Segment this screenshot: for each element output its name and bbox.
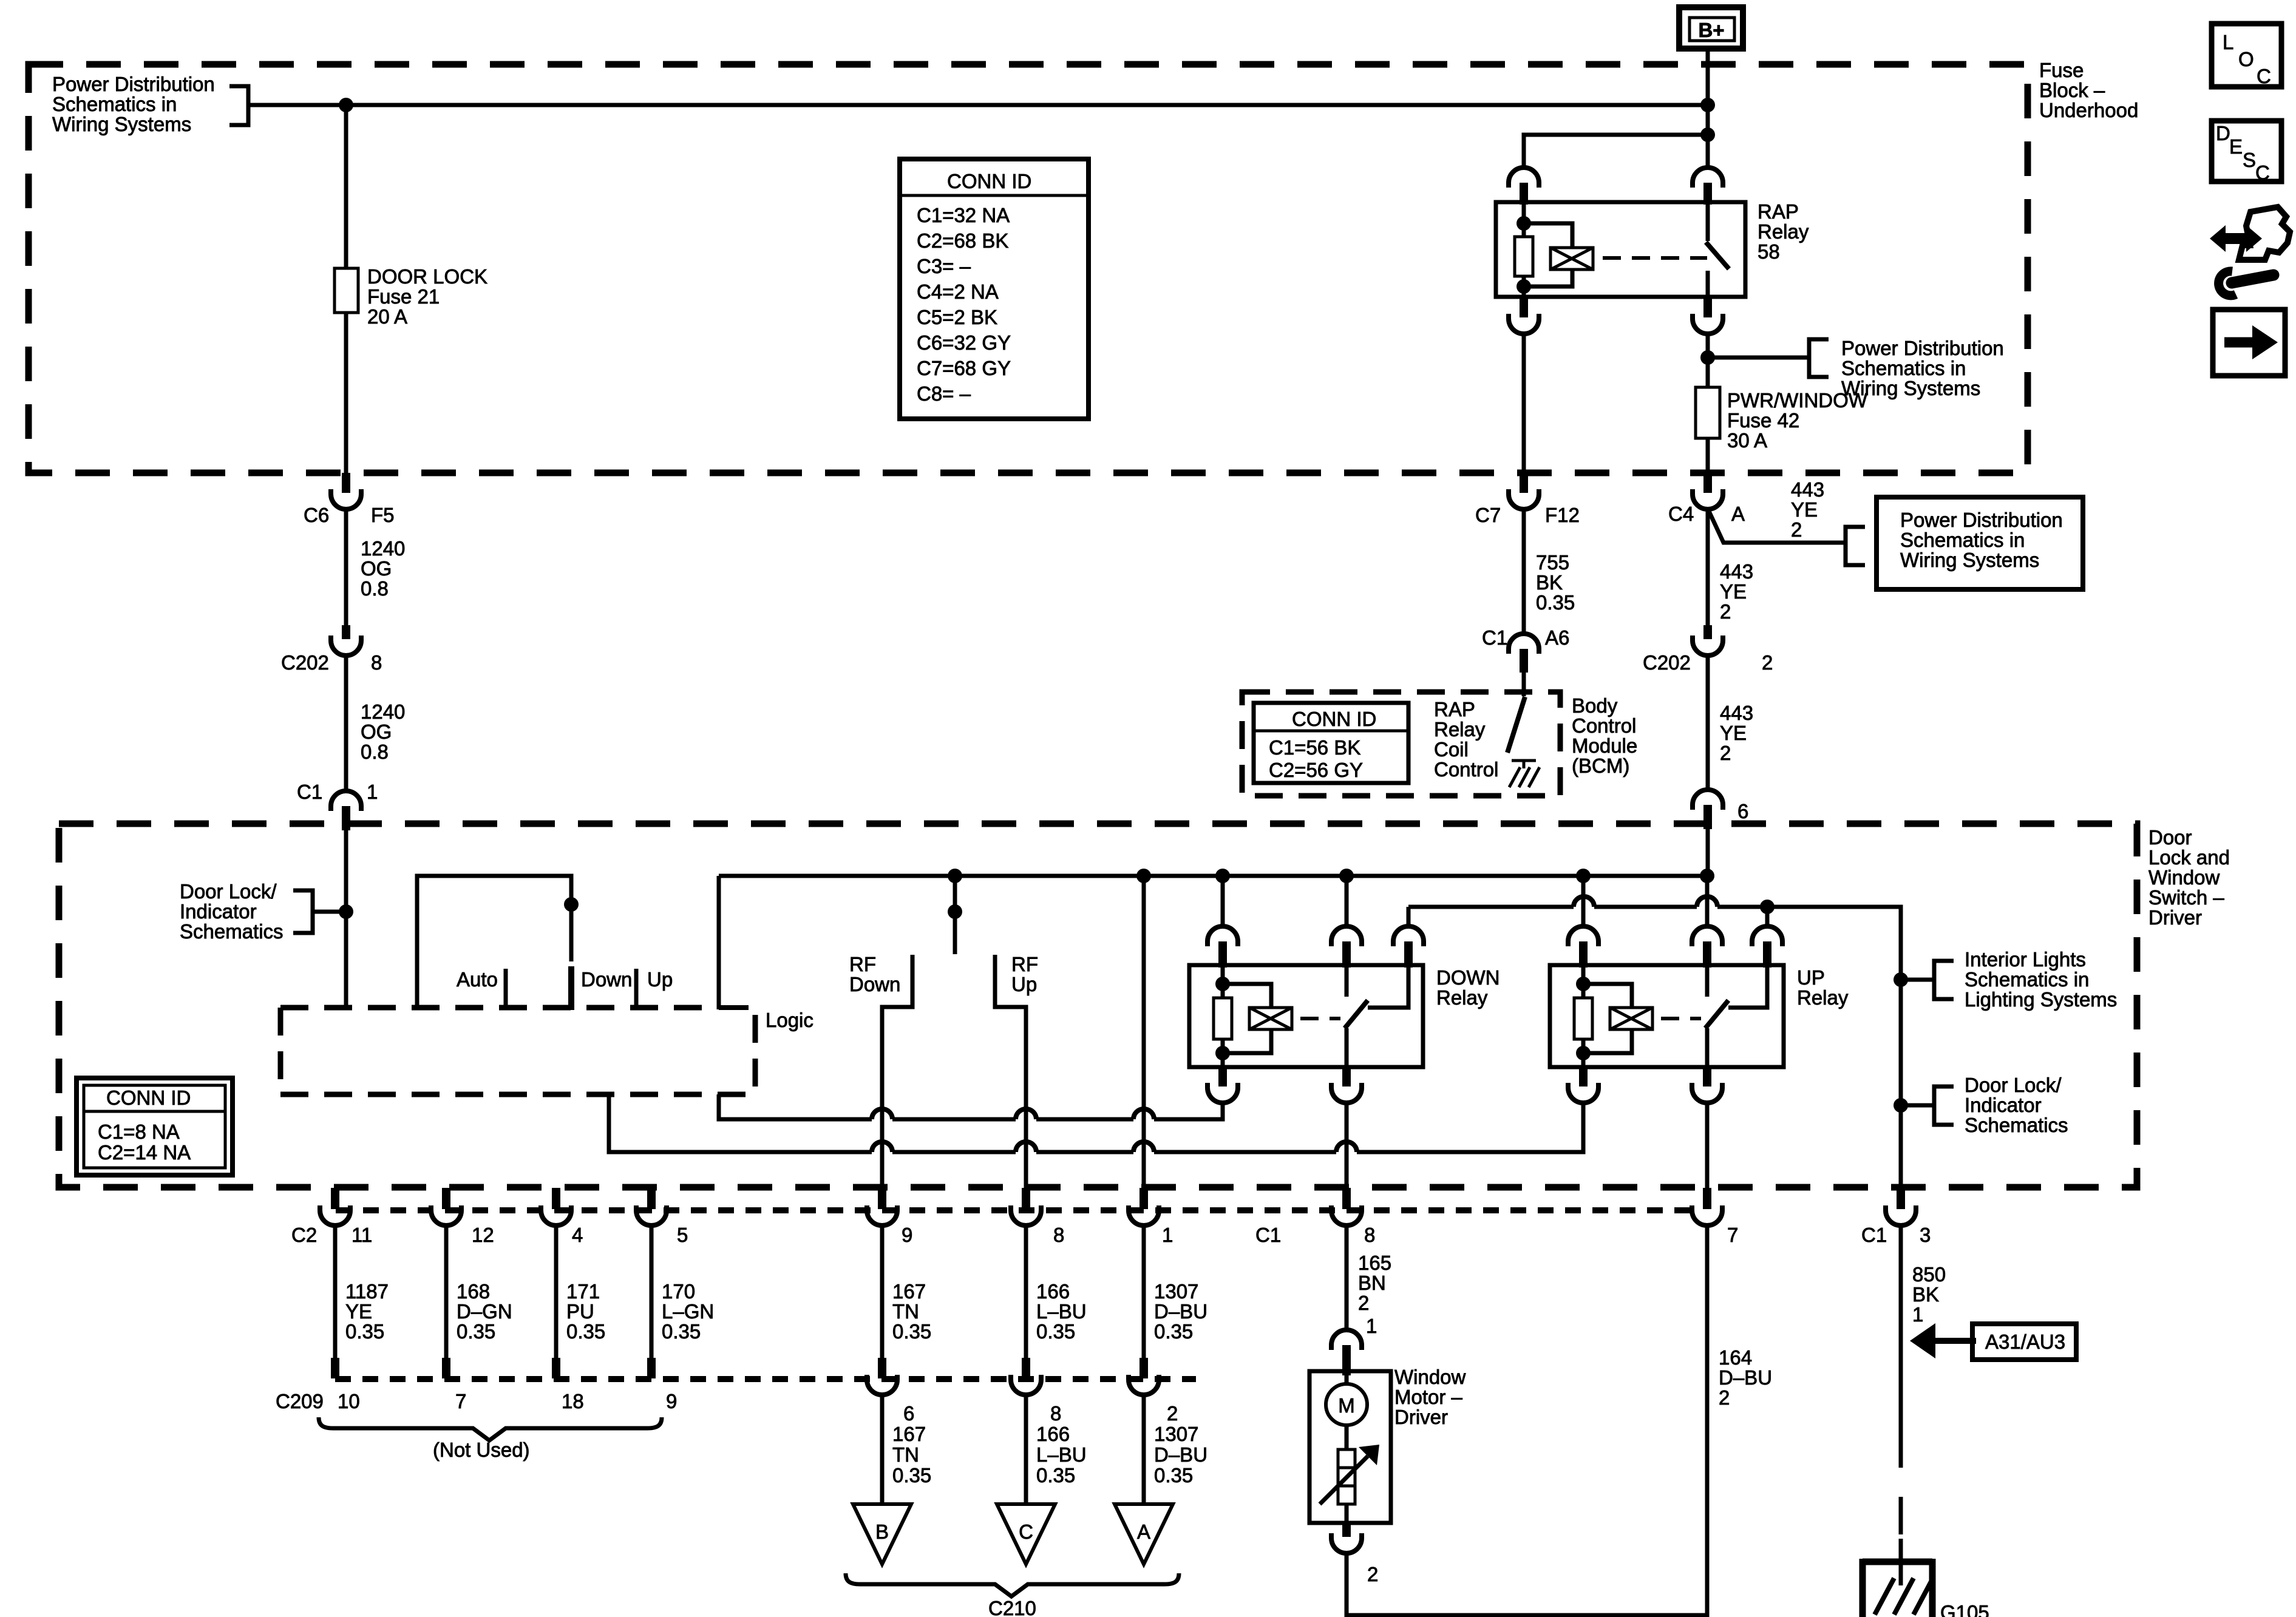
relay DOWN box <box>1189 965 1423 1067</box>
svg-text:C3= –: C3= – <box>917 255 971 277</box>
svg-text:6: 6 <box>903 1402 914 1425</box>
svg-text:Schematics: Schematics <box>180 920 284 943</box>
svg-text:C2=56 GY: C2=56 GY <box>1269 759 1363 781</box>
reference bracket power distribution (right) <box>1846 527 1865 565</box>
wire left column down to fuse 21 <box>344 105 348 268</box>
wire dashed ground run <box>1899 1430 1903 1539</box>
svg-text:L–GN: L–GN <box>662 1300 714 1323</box>
UP relay switch <box>1705 965 1710 997</box>
connector C1 pin 1 (switch) <box>331 791 361 811</box>
connector pin RAP coil top <box>1509 168 1539 188</box>
svg-text:Control: Control <box>1434 758 1498 781</box>
bus top of relays <box>719 874 1708 878</box>
switch solid box with bus <box>717 876 721 1009</box>
svg-text:Driver: Driver <box>1394 1406 1448 1428</box>
svg-text:F12: F12 <box>1545 504 1580 526</box>
svg-text:B+: B+ <box>1698 19 1724 41</box>
wire bracket to tap <box>313 910 346 914</box>
logic dashed box <box>280 1005 716 1011</box>
svg-text:20 A: 20 A <box>367 305 407 328</box>
svg-text:YE: YE <box>345 1300 372 1323</box>
svg-text:C1=32 NA: C1=32 NA <box>917 204 1010 226</box>
node junction RAP coil branch <box>1700 127 1715 142</box>
UP relay actuator dashed link <box>1661 1017 1701 1020</box>
svg-text:(Not Used): (Not Used) <box>433 1439 530 1461</box>
svg-text:Power Distribution: Power Distribution <box>52 73 215 95</box>
connector pin C209-9 <box>647 1358 656 1378</box>
wire B+ down into fuse block <box>1706 51 1710 136</box>
svg-text:2: 2 <box>1367 1563 1378 1585</box>
svg-text:Interior Lights: Interior Lights <box>1965 948 2086 971</box>
svg-text:4: 4 <box>572 1224 583 1246</box>
svg-text:YE: YE <box>1791 498 1818 521</box>
motor thermistor <box>1345 1425 1349 1449</box>
svg-text:C4=2 NA: C4=2 NA <box>917 280 999 303</box>
reference bracket power distribution (middle) <box>1809 339 1829 377</box>
wire 755 BK 0.35 <box>1522 509 1526 634</box>
wire UP relay NO pin <box>1765 907 1770 927</box>
icon LOC <box>2212 24 2281 87</box>
icon DESC <box>2212 121 2281 184</box>
svg-text:0.35: 0.35 <box>566 1320 605 1343</box>
svg-text:0.35: 0.35 <box>662 1320 701 1343</box>
svg-text:8: 8 <box>371 651 382 674</box>
svg-text:C2=14 NA: C2=14 NA <box>98 1141 191 1164</box>
svg-text:0.35: 0.35 <box>457 1320 495 1343</box>
svg-text:C1: C1 <box>297 781 322 803</box>
svg-text:PWR/WINDOW: PWR/WINDOW <box>1727 389 1868 412</box>
svg-text:C5=2 BK: C5=2 BK <box>917 306 997 328</box>
wire fuse 42 to C4 <box>1706 438 1710 474</box>
svg-text:C6: C6 <box>304 504 329 526</box>
connector C1 pin A6 (BCM) <box>1509 634 1539 654</box>
connector pin RAP coil bottom <box>1520 297 1528 317</box>
connector C6 pin F5 <box>342 473 350 493</box>
svg-text:9: 9 <box>902 1224 912 1246</box>
wire 167 TN 0.35 lower <box>880 1395 885 1504</box>
wire tap to bracket door lock right <box>1901 1103 1934 1108</box>
switch up contact <box>634 969 639 1008</box>
svg-text:Logic: Logic <box>766 1009 813 1031</box>
svg-text:Driver: Driver <box>2148 906 2202 929</box>
wire 850 BK 1 <box>1899 1225 1903 1430</box>
svg-text:165: 165 <box>1358 1252 1391 1274</box>
RF common feed <box>953 876 957 954</box>
svg-text:8: 8 <box>1364 1224 1375 1246</box>
svg-text:1: 1 <box>1912 1303 1923 1326</box>
wire down relay NO pin from interior lights run <box>1407 907 1411 927</box>
brace not used <box>319 1417 662 1440</box>
connector pin C1-8 motor feed <box>1342 1188 1351 1209</box>
svg-text:443: 443 <box>1720 560 1753 583</box>
brace C210 <box>846 1573 1179 1596</box>
svg-text:Wiring Systems: Wiring Systems <box>52 113 191 135</box>
svg-text:C: C <box>2257 65 2271 87</box>
wire UP relay coil feed <box>1581 876 1586 927</box>
svg-text:C7=68 GY: C7=68 GY <box>917 357 1011 379</box>
svg-text:Relay: Relay <box>1758 220 1809 243</box>
svg-text:Door: Door <box>2148 826 2192 849</box>
svg-text:Schematics in: Schematics in <box>1965 968 2089 991</box>
svg-text:D–BU: D–BU <box>1719 1366 1772 1389</box>
svg-text:C209: C209 <box>276 1390 324 1412</box>
RF Up contact <box>995 955 1026 1188</box>
svg-text:0.35: 0.35 <box>1536 591 1575 614</box>
svg-text:DOOR LOCK: DOOR LOCK <box>367 265 487 288</box>
connector pin 7 <box>1703 1188 1711 1209</box>
B+ terminal <box>1679 7 1743 49</box>
svg-text:58: 58 <box>1758 240 1780 263</box>
svg-text:E: E <box>2229 135 2243 158</box>
svg-text:C2: C2 <box>291 1224 317 1246</box>
svg-text:L: L <box>2223 31 2233 53</box>
svg-text:C210: C210 <box>988 1597 1036 1617</box>
connector pin C2-4 <box>552 1188 560 1209</box>
svg-text:O: O <box>2238 48 2254 70</box>
icon arrow right <box>2213 310 2285 376</box>
window motor box <box>1309 1371 1391 1523</box>
svg-text:Wiring Systems: Wiring Systems <box>1900 549 2039 571</box>
svg-text:C7: C7 <box>1475 504 1501 526</box>
svg-text:2: 2 <box>1720 600 1731 623</box>
connector pin C210-2 <box>1140 1358 1148 1378</box>
svg-text:PU: PU <box>566 1300 594 1323</box>
svg-text:DOWN: DOWN <box>1436 966 1500 989</box>
svg-text:Control: Control <box>1572 714 1636 737</box>
svg-text:A31/AU3: A31/AU3 <box>1985 1331 2065 1353</box>
svg-text:2: 2 <box>1167 1402 1178 1425</box>
BCM dashed box <box>1242 692 1560 796</box>
svg-text:YE: YE <box>1720 580 1747 603</box>
svg-text:UP: UP <box>1797 966 1825 989</box>
svg-text:Up: Up <box>647 968 673 991</box>
svg-text:D: D <box>2216 122 2230 144</box>
reference box Power Distribution Schematics in Wiring Systems <box>1877 497 2083 589</box>
connector motor pin 1 <box>1331 1330 1362 1350</box>
svg-text:M: M <box>1338 1394 1355 1417</box>
node interior lights tap <box>1894 972 1908 987</box>
wire motor return 164 D-BU 2 <box>1347 1225 1707 1615</box>
wire logic to UP coil (wire C) <box>609 1094 872 1152</box>
svg-text:164: 164 <box>1719 1346 1752 1369</box>
wire 1307 D-BU 0.35 lower <box>1142 1395 1146 1504</box>
switch rail auto/down <box>417 876 571 1008</box>
reference arrow A31/AU3 <box>1910 1323 2076 1360</box>
connector face dotted line C2 <box>336 1207 1693 1213</box>
wire 165 BN 2 motor feed <box>1345 1225 1349 1329</box>
svg-text:18: 18 <box>562 1390 584 1412</box>
svg-text:Fuse: Fuse <box>2039 59 2084 81</box>
connector pin C2-8 <box>1022 1188 1030 1209</box>
DOWN relay coil bottom pin <box>1218 1067 1227 1086</box>
RAP relay coil winding <box>1524 223 1572 248</box>
icon service arrows and wrench <box>2210 207 2290 296</box>
svg-text:0.8: 0.8 <box>361 577 389 600</box>
CONN ID table (fuse block) <box>900 159 1089 419</box>
svg-text:3: 3 <box>1920 1224 1931 1246</box>
svg-text:BN: BN <box>1358 1272 1386 1294</box>
wire pin 6 to bus <box>1706 829 1710 876</box>
svg-text:C202: C202 <box>1643 651 1691 674</box>
CONN ID table (BCM) <box>1254 703 1408 783</box>
svg-text:C1=8 NA: C1=8 NA <box>98 1120 180 1143</box>
svg-text:Fuse 42: Fuse 42 <box>1727 409 1799 432</box>
svg-text:C: C <box>2255 161 2270 184</box>
svg-text:D–BU: D–BU <box>1154 1300 1207 1323</box>
svg-text:0.35: 0.35 <box>345 1320 384 1343</box>
svg-text:1240: 1240 <box>361 537 405 560</box>
svg-text:OG: OG <box>361 720 392 743</box>
svg-text:167: 167 <box>892 1280 926 1303</box>
svg-text:C1: C1 <box>1861 1224 1887 1246</box>
svg-text:1307: 1307 <box>1154 1423 1198 1445</box>
node junction at B+ column <box>1700 98 1715 112</box>
svg-text:Body: Body <box>1572 694 1618 717</box>
RF Down contact <box>882 955 912 1188</box>
reference bracket door lock indicator right <box>1934 1086 1954 1125</box>
connector C202 pin 2 <box>1703 625 1712 639</box>
svg-text:0.35: 0.35 <box>892 1320 931 1343</box>
svg-text:8: 8 <box>1050 1402 1061 1425</box>
svg-text:166: 166 <box>1036 1423 1070 1445</box>
wire down relay switch feed <box>1345 876 1349 927</box>
connector C4 pin A <box>1703 473 1712 493</box>
connector C7 pin F12 <box>1520 473 1528 493</box>
ground symbol inside BCM <box>1509 761 1540 787</box>
svg-text:1240: 1240 <box>361 700 405 723</box>
svg-text:(BCM): (BCM) <box>1572 754 1629 777</box>
wire 167 TN 0.35 upper <box>880 1225 885 1358</box>
connector pin RAP switch bottom <box>1703 297 1712 317</box>
svg-text:2: 2 <box>1720 742 1731 764</box>
svg-text:Down: Down <box>849 973 900 995</box>
wire RAP coil to C7 <box>1522 334 1526 474</box>
connector pin RAP switch top <box>1693 168 1723 188</box>
svg-text:D–GN: D–GN <box>457 1300 512 1323</box>
svg-text:CONN ID: CONN ID <box>947 170 1031 192</box>
svg-text:Power Distribution: Power Distribution <box>1900 509 2063 531</box>
svg-text:443: 443 <box>1791 478 1824 501</box>
connector pin C209-18 <box>552 1358 560 1378</box>
svg-text:Indicator: Indicator <box>1965 1094 2042 1116</box>
svg-text:G105: G105 <box>1940 1601 1989 1617</box>
wire UP relay switch feed <box>1705 876 1710 927</box>
svg-text:168: 168 <box>457 1280 490 1303</box>
wire 443 YE 2 to switch <box>1706 656 1710 790</box>
DOWN relay switch <box>1345 965 1349 997</box>
svg-text:F5: F5 <box>371 504 395 526</box>
connector pin C210-6 <box>878 1358 886 1378</box>
svg-text:Underhood: Underhood <box>2039 99 2138 121</box>
terminal triangle A <box>1115 1504 1173 1564</box>
svg-text:Relay: Relay <box>1436 986 1488 1009</box>
svg-text:11: 11 <box>352 1224 372 1246</box>
svg-text:2: 2 <box>1762 651 1773 674</box>
CONN ID table (switch) <box>76 1078 233 1175</box>
svg-text:167: 167 <box>892 1423 926 1445</box>
svg-text:1: 1 <box>1162 1224 1173 1246</box>
connector motor pin 2 <box>1342 1523 1351 1537</box>
svg-text:BK: BK <box>1536 571 1563 594</box>
wire interior lights run from DOWN NO <box>1408 905 1574 909</box>
UP relay coil resistor <box>1581 965 1586 998</box>
svg-text:0.35: 0.35 <box>1154 1320 1193 1343</box>
svg-text:8: 8 <box>1053 1224 1064 1246</box>
svg-text:2: 2 <box>1358 1292 1369 1314</box>
svg-text:5: 5 <box>677 1224 688 1246</box>
wire 168 D-GN 0.35 <box>444 1225 449 1358</box>
svg-text:0.35: 0.35 <box>1036 1320 1075 1343</box>
svg-text:170: 170 <box>662 1280 695 1303</box>
UP relay coil winding <box>1583 984 1632 1008</box>
connector pin C2-11 <box>331 1188 339 1209</box>
wire branch to RAP relay coil <box>1524 135 1708 168</box>
svg-text:Switch –: Switch – <box>2148 886 2224 909</box>
svg-text:2: 2 <box>1719 1386 1730 1409</box>
wire 171 PU 0.35 <box>554 1225 559 1358</box>
svg-text:12: 12 <box>472 1224 494 1246</box>
svg-text:Motor –: Motor – <box>1394 1386 1463 1408</box>
switch down movable contact <box>568 966 574 1010</box>
svg-text:443: 443 <box>1720 702 1753 724</box>
svg-text:RAP: RAP <box>1758 200 1799 223</box>
svg-text:10: 10 <box>338 1390 360 1412</box>
switch auto contact <box>504 969 508 1008</box>
svg-text:RAP: RAP <box>1434 698 1475 720</box>
connector pin C1-3 ground <box>1897 1188 1905 1209</box>
wire DOWN switch to motor pin <box>1345 1103 1349 1188</box>
wire tap to bracket <box>1708 356 1809 360</box>
svg-text:C8= –: C8= – <box>917 382 971 405</box>
svg-text:YE: YE <box>1720 722 1747 744</box>
svg-text:Fuse 21: Fuse 21 <box>367 285 440 308</box>
node junction at door lock fuse feed <box>339 98 353 112</box>
svg-text:A: A <box>1731 503 1745 525</box>
connector C202 pin 8 <box>342 625 350 639</box>
svg-text:6: 6 <box>1737 800 1748 822</box>
wire 1187 YE 0.35 <box>333 1225 338 1358</box>
wire down relay coil feed <box>1221 876 1225 927</box>
svg-text:Down: Down <box>581 968 632 991</box>
svg-text:RF: RF <box>1011 953 1038 975</box>
door lock and window switch driver dashed box <box>59 824 2137 1187</box>
connector pin 6 (switch) <box>1693 790 1723 810</box>
DOWN relay switch bottom pin <box>1342 1067 1351 1086</box>
svg-text:RF: RF <box>849 953 876 975</box>
DOWN relay actuator dashed link <box>1300 1017 1340 1020</box>
connector pin C210-8 <box>1022 1358 1030 1378</box>
svg-text:0.8: 0.8 <box>361 741 389 763</box>
RAP relay coil resistor <box>1522 202 1526 237</box>
svg-text:7: 7 <box>1727 1224 1738 1246</box>
wire pin1 feed <box>1142 876 1146 1188</box>
RAP relay actuator dashed link <box>1603 256 1707 260</box>
wire fuse 21 to connector C6 <box>344 313 348 474</box>
wire 1307 D-BU 0.35 upper <box>1142 1225 1146 1358</box>
connector pin C2-1 <box>1140 1188 1148 1209</box>
svg-text:0.35: 0.35 <box>892 1464 931 1486</box>
UP relay switch bottom pin <box>1703 1067 1711 1086</box>
connector pin C2-5 <box>647 1188 656 1209</box>
BCM internal switch RAP relay coil control <box>1522 673 1526 696</box>
motor M symbol <box>1345 1375 1349 1384</box>
wire 443 YE 2 to C202 <box>1706 509 1710 626</box>
wire into switch from C1-1 <box>344 830 348 1008</box>
svg-text:850: 850 <box>1912 1263 1946 1286</box>
svg-text:171: 171 <box>566 1280 600 1303</box>
svg-text:Schematics: Schematics <box>1965 1114 2068 1136</box>
svg-text:C4: C4 <box>1668 503 1694 525</box>
svg-text:OG: OG <box>361 557 392 580</box>
DOWN relay coil winding <box>1223 984 1271 1008</box>
svg-text:C202: C202 <box>281 651 329 674</box>
svg-text:B: B <box>875 1520 889 1543</box>
svg-text:7: 7 <box>455 1390 466 1412</box>
node junction power dist tap <box>1700 350 1715 365</box>
svg-text:A: A <box>1137 1520 1150 1543</box>
terminal triangle C <box>997 1504 1055 1564</box>
svg-text:1187: 1187 <box>345 1280 389 1303</box>
svg-text:30 A: 30 A <box>1727 429 1767 452</box>
fuse block underhood dashed box <box>29 64 2028 473</box>
node junction door lock indicator tap <box>339 904 353 919</box>
svg-text:755: 755 <box>1536 551 1569 574</box>
svg-text:L–BU: L–BU <box>1036 1443 1087 1466</box>
terminal triangle B <box>853 1504 911 1564</box>
RAP relay switch <box>1706 202 1710 241</box>
svg-text:Window: Window <box>2148 866 2220 889</box>
svg-text:C1=56 BK: C1=56 BK <box>1269 736 1360 759</box>
svg-text:9: 9 <box>666 1390 677 1412</box>
svg-text:C1: C1 <box>1482 626 1507 649</box>
svg-text:Power Distribution: Power Distribution <box>1841 337 2004 359</box>
svg-text:Module: Module <box>1572 734 1637 757</box>
svg-text:D–BU: D–BU <box>1154 1443 1207 1466</box>
svg-text:A6: A6 <box>1545 626 1569 649</box>
wire B+ feed horizontal <box>248 103 1708 107</box>
svg-text:Door Lock/: Door Lock/ <box>180 880 277 903</box>
wire 166 L-BU 0.35 upper <box>1024 1225 1028 1358</box>
fuse F42 PWR/WINDOW 30A <box>1696 387 1720 438</box>
svg-text:Up: Up <box>1011 973 1037 995</box>
svg-text:Door Lock/: Door Lock/ <box>1965 1074 2062 1096</box>
svg-text:TN: TN <box>892 1300 919 1323</box>
svg-text:Lighting Systems: Lighting Systems <box>1965 988 2117 1011</box>
svg-text:Coil: Coil <box>1434 738 1469 761</box>
svg-text:L–BU: L–BU <box>1036 1300 1087 1323</box>
relay UP box <box>1550 965 1784 1067</box>
DOWN relay coil resistor <box>1221 965 1225 998</box>
wire tap to bracket interior lights <box>1901 978 1934 982</box>
reference bracket door lock indicator left <box>293 890 313 933</box>
reference bracket interior lights <box>1934 961 1954 999</box>
svg-text:166: 166 <box>1036 1280 1070 1303</box>
reference bracket top left <box>229 86 248 125</box>
connector pin C2-9 <box>878 1188 886 1209</box>
svg-text:1: 1 <box>367 781 378 803</box>
wire logic to DOWN coil (wire A) <box>719 1094 872 1119</box>
svg-text:C: C <box>1019 1520 1033 1543</box>
svg-text:Window: Window <box>1394 1366 1466 1388</box>
node door lock indicator tap right <box>1894 1098 1908 1113</box>
svg-text:Schematics in: Schematics in <box>1900 529 2025 551</box>
svg-text:Lock and: Lock and <box>2148 846 2230 869</box>
svg-text:0.35: 0.35 <box>1036 1464 1075 1486</box>
relay RAP 58 box <box>1496 202 1745 297</box>
ground G105 <box>1863 1559 1989 1617</box>
svg-text:0.35: 0.35 <box>1154 1464 1193 1486</box>
svg-text:Auto: Auto <box>457 968 498 991</box>
